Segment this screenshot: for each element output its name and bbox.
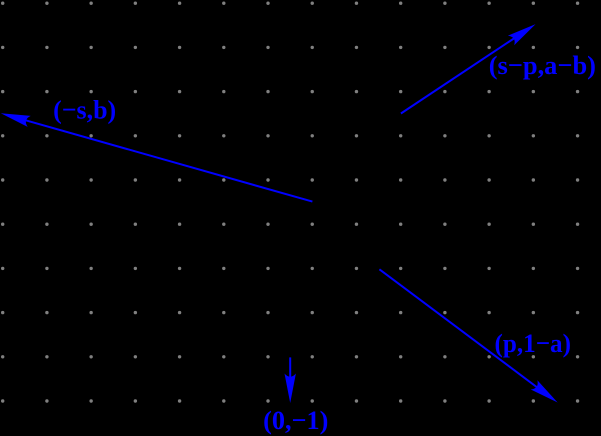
svg-text:(0,−1): (0,−1) (263, 405, 328, 435)
arrowhead of vector V4 (531, 380, 561, 407)
vector V3 (0,-1) (285, 357, 296, 403)
wire: shaft of vector V4 (379, 269, 546, 394)
wire: shaft of vector V1 (401, 32, 523, 113)
arrowhead of vector V3 (285, 374, 296, 404)
svg-text:(−s,b): (−s,b) (53, 95, 116, 125)
vector V1 (s-p,a-b) (401, 19, 539, 113)
svg-text:(p,1−a): (p,1−a) (495, 328, 572, 358)
arrowhead of vector V1 (508, 19, 539, 45)
arrowhead of vector V2 (0, 108, 31, 127)
vector V2 (-s,b) (0, 108, 312, 202)
svg-text:(s−p,a−b): (s−p,a−b) (489, 50, 596, 80)
wire: shaft of vector V2 (12, 116, 312, 201)
wire: shaft of vector V3 (289, 357, 291, 390)
vector V4 (p,1-a) (379, 269, 561, 407)
